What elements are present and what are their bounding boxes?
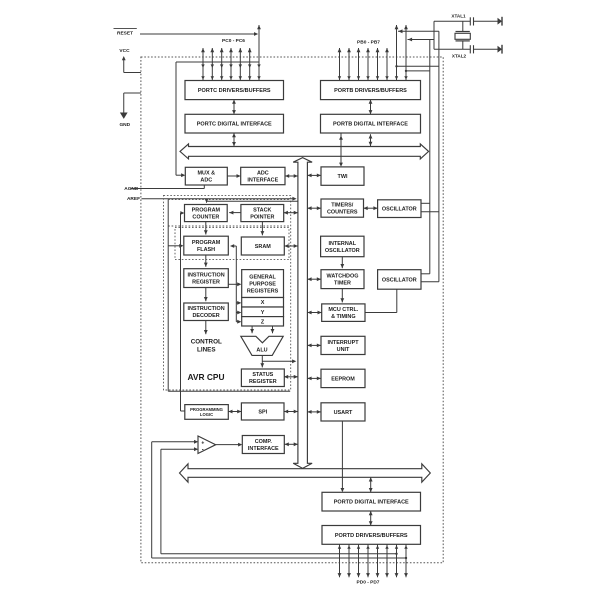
svg-text:USART: USART <box>334 410 353 416</box>
svg-text:Y: Y <box>261 310 265 316</box>
svg-text:AVR CPU: AVR CPU <box>187 372 224 382</box>
svg-text:REGISTERS: REGISTERS <box>247 289 279 295</box>
svg-text:PORTD DRIVERS/BUFFERS: PORTD DRIVERS/BUFFERS <box>335 533 408 539</box>
svg-text:STACK: STACK <box>253 207 271 213</box>
svg-text:MUX &: MUX & <box>198 171 216 177</box>
svg-text:LOGIC: LOGIC <box>200 412 213 417</box>
svg-text:INTERRUPT: INTERRUPT <box>327 340 359 346</box>
svg-text:X: X <box>261 300 265 306</box>
svg-text:PORTC DIGITAL INTERFACE: PORTC DIGITAL INTERFACE <box>197 122 272 128</box>
svg-text:VCC: VCC <box>119 48 130 54</box>
svg-text:INSTRUCTION: INSTRUCTION <box>187 273 224 279</box>
svg-text:CONTROL: CONTROL <box>191 339 222 346</box>
svg-text:INTERNAL: INTERNAL <box>329 241 357 247</box>
svg-text:PC0 - PC6: PC0 - PC6 <box>222 38 245 44</box>
svg-text:ADC: ADC <box>257 170 269 176</box>
svg-text:STATUS: STATUS <box>252 372 273 378</box>
svg-text:SRAM: SRAM <box>255 244 271 250</box>
svg-text:REGISTER: REGISTER <box>249 379 277 385</box>
svg-text:AREF: AREF <box>127 196 140 202</box>
svg-text:INSTRUCTION: INSTRUCTION <box>187 306 224 312</box>
svg-text:PROGRAM: PROGRAM <box>192 240 221 246</box>
svg-text:GENERAL: GENERAL <box>249 274 276 280</box>
svg-text:AGND: AGND <box>124 186 139 192</box>
svg-text:PURPOSE: PURPOSE <box>249 282 276 288</box>
svg-text:PORTB DRIVERS/BUFFERS: PORTB DRIVERS/BUFFERS <box>334 88 407 94</box>
svg-text:EEPROM: EEPROM <box>331 376 355 382</box>
svg-text:XTAL1: XTAL1 <box>451 14 466 19</box>
svg-text:OSCILLATOR: OSCILLATOR <box>382 277 417 283</box>
svg-text:XTAL2: XTAL2 <box>452 53 467 58</box>
svg-text:& TIMING: & TIMING <box>331 314 355 320</box>
svg-text:PORTC DRIVERS/BUFFERS: PORTC DRIVERS/BUFFERS <box>198 88 271 94</box>
svg-text:+: + <box>201 440 204 446</box>
svg-text:DECODER: DECODER <box>192 313 219 319</box>
svg-text:-: - <box>202 448 204 454</box>
svg-text:RESET: RESET <box>117 30 133 36</box>
svg-text:REGISTER: REGISTER <box>192 280 220 286</box>
svg-text:SPI: SPI <box>258 409 267 415</box>
svg-text:GND: GND <box>119 122 130 128</box>
svg-text:MCU CTRL.: MCU CTRL. <box>328 307 358 313</box>
svg-text:POINTER: POINTER <box>250 215 274 221</box>
svg-text:COUNTERS: COUNTERS <box>327 210 358 216</box>
svg-text:TIMERS/: TIMERS/ <box>331 203 354 209</box>
svg-text:PROGRAM: PROGRAM <box>192 207 221 213</box>
svg-text:PD0 - PD7: PD0 - PD7 <box>357 580 380 586</box>
svg-text:INTERFACE: INTERFACE <box>248 446 279 452</box>
svg-text:INTERFACE: INTERFACE <box>247 177 278 183</box>
svg-text:ALU: ALU <box>256 347 267 353</box>
svg-text:COMP.: COMP. <box>255 439 273 445</box>
svg-text:PORTB DIGITAL INTERFACE: PORTB DIGITAL INTERFACE <box>333 122 408 128</box>
svg-text:PORTD DIGITAL INTERFACE: PORTD DIGITAL INTERFACE <box>334 500 409 506</box>
svg-text:TIMER: TIMER <box>334 281 351 287</box>
svg-text:OSCILLATOR: OSCILLATOR <box>325 248 360 254</box>
svg-text:WATCHDOG: WATCHDOG <box>327 274 359 280</box>
svg-text:ADC: ADC <box>200 178 212 184</box>
svg-text:COUNTER: COUNTER <box>192 215 219 221</box>
svg-text:PB0 - PB7: PB0 - PB7 <box>357 40 380 46</box>
svg-text:LINES: LINES <box>197 347 216 354</box>
svg-text:FLASH: FLASH <box>197 247 215 253</box>
svg-text:UNIT: UNIT <box>337 347 350 353</box>
svg-text:OSCILLATOR: OSCILLATOR <box>382 207 417 213</box>
svg-text:TWI: TWI <box>338 174 348 180</box>
